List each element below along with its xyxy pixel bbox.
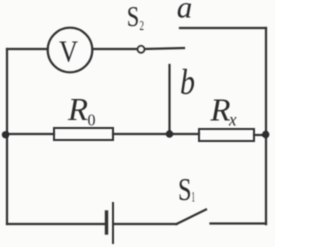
svg-text:0: 0 (88, 111, 96, 130)
voltmeter V (48, 28, 93, 73)
svg-text:2: 2 (140, 19, 145, 34)
wire: S1 fixed contact to bottom-right corner (211, 222, 267, 225)
svg-text:V: V (59, 34, 79, 69)
node: junction b on middle wire (166, 130, 173, 137)
wire: battery to switch S1 pivot (114, 223, 177, 225)
battery positive plate (long thin) (112, 203, 114, 243)
wire: Rx to right vertical (254, 134, 266, 136)
wire: contact b vertical stub (168, 65, 170, 134)
svg-text:1: 1 (192, 190, 196, 206)
wire: voltmeter to switch S2 pivot (93, 48, 138, 50)
svg-text:a: a (177, 0, 193, 25)
wire: top-left to voltmeter (7, 48, 48, 50)
resistor R0 body (54, 128, 113, 140)
wire: middle segment between R0 and Rx (113, 133, 199, 135)
wire: left vertical branch (6, 49, 8, 224)
battery negative plate (short thick) (105, 212, 108, 233)
svg-text:R: R (67, 91, 88, 127)
node: right junction (262, 131, 269, 138)
resistor Rx body (199, 129, 254, 141)
svg-text:S: S (178, 171, 192, 207)
svg-text:R: R (209, 92, 230, 128)
wire: right vertical branch (265, 28, 267, 224)
svg-text:S: S (127, 1, 140, 33)
wire: contact a to right vertical (180, 27, 266, 29)
svg-text:b: b (180, 62, 195, 102)
svg-text:x: x (228, 110, 236, 130)
wire: middle left segment (7, 133, 54, 135)
wire: bottom left segment to battery (7, 223, 105, 225)
node: left junction (2, 131, 9, 138)
switch S2 blade (open) (145, 48, 184, 49)
switch S2 pivot circle (138, 46, 145, 53)
switch S1 blade (open) (177, 210, 207, 225)
